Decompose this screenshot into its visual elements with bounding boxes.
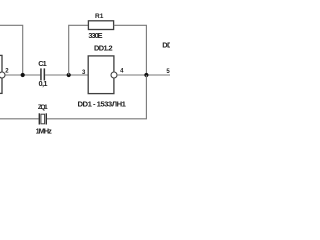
inverter DD1.2 [88, 56, 117, 94]
wire bottom rail left of crystal [0, 118, 39, 120]
node junction dot left [21, 73, 25, 77]
svg-text:0,1: 0,1 [39, 79, 48, 88]
svg-text:5: 5 [166, 69, 170, 75]
node junction dot right [144, 73, 148, 77]
svg-text:ZQ1: ZQ1 [38, 104, 48, 111]
resistor R1 [88, 21, 113, 30]
capacitor C1 [40, 68, 45, 80]
wire right vertical down to bottom rail [47, 75, 147, 119]
svg-text:1MHz: 1MHz [36, 127, 52, 136]
svg-text:DD1 - 1533ЛН1: DD1 - 1533ЛН1 [78, 100, 127, 109]
node junction dot middle [67, 73, 71, 77]
inverter DD1.1 (box mostly off-canvas left) [0, 55, 5, 93]
svg-text:330E: 330E [88, 31, 102, 40]
wire C1 to DD1.2 input [45, 74, 88, 76]
feedback wire over DD1.1 [0, 25, 23, 75]
wire junction up to resistor R1 [69, 25, 89, 75]
svg-text:DD1.2: DD1.2 [94, 44, 113, 53]
wire R1 to right vertical [114, 25, 147, 75]
crystal ZQ1 [39, 113, 47, 124]
svg-text:R1: R1 [95, 13, 104, 20]
wire DD1.1 output to C1 [5, 74, 40, 76]
wire DD1.2 output to right edge [117, 74, 170, 76]
svg-text:DD1.3: DD1.3 [162, 41, 170, 50]
svg-text:C1: C1 [38, 59, 47, 68]
